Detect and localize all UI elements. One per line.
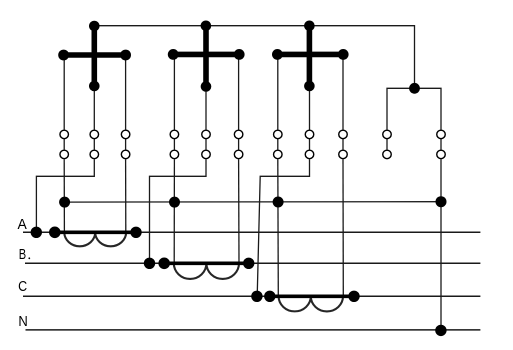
svg-text:A: A (18, 217, 27, 233)
svg-text:B: B (19, 247, 26, 263)
svg-text:N: N (18, 314, 27, 330)
svg-text:C: C (18, 279, 27, 295)
